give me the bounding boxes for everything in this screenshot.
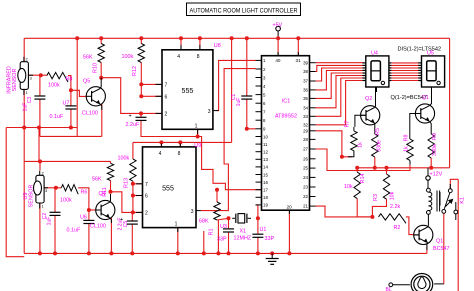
wire right rail [449,38,451,168]
wire U9 pin3 to IC pin2 [201,69,256,211]
lamp load [389,274,444,291]
svg-text:29: 29 [303,128,308,133]
svg-text:10: 10 [263,134,268,139]
timer U9 555 box [136,144,201,233]
node Q4 collector [109,190,113,194]
wire seg bus e [316,73,364,98]
capacitor U6 0.1uF [83,219,94,221]
svg-text:32: 32 [303,122,308,127]
svg-text:R2: R2 [394,225,401,231]
svg-text:R5: R5 [375,128,381,135]
svg-text:Q2: Q2 [365,96,372,102]
wire U9 pin4 stub [160,142,162,147]
svg-text:X1: X1 [240,229,247,235]
resistor R8 100k [47,72,68,82]
wire Q1 emitter to rail [426,246,428,253]
wire IC pin31 stub [297,38,299,55]
node sensor2 top [38,159,42,163]
wire seg bus b [316,65,364,71]
svg-text:BL: BL [386,287,392,291]
svg-text:4: 4 [177,54,180,60]
svg-text:555: 555 [162,185,174,192]
wire IC pin20 ground drop [288,210,290,253]
svg-text:R8: R8 [66,77,73,83]
wire seg bus d [316,71,364,90]
svg-text:0.1uF: 0.1uF [67,228,81,234]
svg-text:27: 27 [303,147,308,152]
svg-text:100k: 100k [48,83,60,89]
wire U8 pin4 stub [180,38,182,50]
capacitor C4 2.2uF polarized [136,116,147,118]
svg-text:Q5: Q5 [83,79,90,85]
svg-text:2: 2 [165,112,168,118]
wire U8 pin3 to IC pin1 [217,60,256,110]
svg-text:3: 3 [208,109,211,115]
wire R1 leg to rail [217,220,219,254]
svg-text:8: 8 [197,54,200,60]
wire crystal left cap U3 [228,218,230,229]
wire sensor2 feed [24,160,110,162]
wire C4 bottom to pin1 node [141,121,198,137]
wire C2 bottom [54,215,56,253]
wire C5 bottom [131,224,133,253]
resistor R1 68K [214,202,220,220]
wire C2 top [54,188,56,213]
svg-text:100k: 100k [60,198,72,204]
wire R12 bottom to pins 7/6 [140,63,142,97]
wire left rail [23,38,25,253]
svg-text:100k: 100k [122,54,134,60]
svg-text:SENSOR: SENSOR [28,185,34,208]
wire R11 top stub [110,161,112,163]
svg-text:R6: R6 [81,190,88,196]
svg-text:C3: C3 [27,97,33,104]
svg-text:20: 20 [287,205,293,210]
microcontroller IC1 AT89S52 [256,52,316,214]
svg-text:U4: U4 [371,51,378,57]
wire sensor2 mid to node [44,187,62,189]
wire +5V terminal to rail [277,31,279,39]
wire to U9 pin7 [133,183,143,185]
node R7 bottom [340,155,344,159]
svg-text:R11: R11 [102,187,108,197]
node Q5 collector [99,76,103,80]
node +12V terminal [426,176,430,180]
svg-text:U9: U9 [194,143,201,149]
wire sensor2 bottom [39,203,41,253]
wire C1 bottom to pin9 [247,99,256,129]
svg-text:R12: R12 [132,66,138,76]
node C1 pin9 [245,127,249,131]
crystal X1 12MHZ [232,214,251,223]
svg-text:Q1: Q1 [422,95,429,101]
svg-text:+5V: +5V [273,23,283,29]
capacitor C2 1uF [50,211,61,213]
wire U9 supply rail [133,141,232,143]
wire sensor1 mid to junction [28,74,46,76]
svg-text:22: 22 [303,194,308,199]
node Q4 base [87,208,91,212]
resistor R3 10k [383,174,389,199]
svg-text:11: 11 [263,142,268,147]
svg-text:18: 18 [263,195,268,200]
wire C4 top tap [140,113,142,117]
svg-text:12MHZ: 12MHZ [234,236,252,242]
wire to U8 pin7 [141,83,162,85]
node crystal left [227,216,231,220]
svg-text:10k: 10k [390,191,396,200]
wire R13 top [132,142,134,159]
wire base jog Q5 [71,90,87,96]
capacitor U7 0.1uF [65,105,76,107]
resistor R11 56K [107,163,113,180]
wire pin27 to R8 net [316,149,411,171]
wire to U9 pin6 [133,195,143,197]
node R2 left [370,215,374,219]
svg-text:21: 21 [303,204,308,209]
svg-text:38: 38 [303,69,308,74]
svg-text:15: 15 [263,172,268,177]
wire R9 bottom [430,158,432,168]
svg-text:K1: K1 [460,197,466,204]
svg-text:Q1: Q1 [436,239,443,245]
wire C3 bottom [39,99,41,136]
node sensor1 mid [39,73,43,77]
wire U7 top [70,90,72,106]
resistor R12 100k [138,44,144,63]
svg-text:330e: 330e [432,144,438,156]
node crystal right [256,216,260,220]
svg-text:16: 16 [263,180,268,185]
node y127 dots [22,126,26,130]
svg-text:C5: C5 [123,221,129,228]
display U4 LTS542 [363,56,392,92]
wire R12 top stub [140,38,142,43]
svg-text:R10: R10 [93,63,99,73]
capacitor U3 33P [223,228,234,230]
svg-text:56K: 56K [92,177,102,183]
svg-text:33P: 33P [265,236,275,242]
wire y127 to sensor2 feed riser [38,128,40,162]
svg-text:13: 13 [263,157,268,162]
wire R11 bottom node [110,181,112,192]
relay K1 coil and contact [427,180,458,225]
svg-text:U5: U5 [427,51,434,57]
wire collector node to U8 pin2 [101,78,162,114]
node R12 pins [139,82,143,86]
transistor Q1 BC547 display driver 2 [415,104,434,123]
wire relay common loop [450,179,458,188]
svg-text:1uF: 1uF [236,98,242,107]
wire U4-U5 bus [391,62,419,64]
ground [266,253,279,264]
svg-text:34: 34 [303,105,308,110]
wire R13 bottom chain [132,181,134,212]
wire relay NO contact down [455,214,457,220]
svg-text:0.1uF: 0.1uF [50,114,64,120]
node U9 supply [159,140,163,144]
svg-text:BC547: BC547 [433,246,449,252]
svg-text:33: 33 [303,114,308,119]
capacitor C1 1uF [241,95,252,97]
wire C1 top riser [246,38,248,96]
svg-text:CL100: CL100 [82,111,98,117]
wire U8 pin8 stub [199,38,201,50]
svg-text:28: 28 [303,137,308,142]
svg-text:DIS(1-2)=LTS542: DIS(1-2)=LTS542 [398,47,442,53]
svg-text:24: 24 [303,175,308,180]
svg-text:19: 19 [263,203,268,208]
wire +5V drop x77 [76,38,78,136]
wire 100k to U7 node [68,76,71,91]
resistor R2 2.2k [379,214,406,224]
wire relay NC to lamp [443,213,445,284]
resistor R5 330e [372,134,378,157]
infrared sensor 1 U2 [18,57,33,96]
wire +12V tap [427,168,429,176]
svg-text:10k: 10k [344,184,353,190]
wire C3/emitter y136 [40,135,102,137]
wire R6 to base node [78,188,89,210]
wire U9 pin8 stub [179,142,181,147]
wire base jog Q4 [89,209,96,211]
svg-text:33P: 33P [217,237,227,243]
resistor R14 10k [354,172,360,199]
node bottom rail dots [38,251,42,255]
wire seg bus a [316,62,364,64]
node C4 tap [139,111,143,115]
svg-text:6: 6 [145,194,148,200]
wire R1 bottom to crystal node [217,218,229,220]
resistor R10 56K [98,44,104,63]
wire emitter rail y168 [356,167,450,169]
wire pin21 to R2 node [316,206,373,217]
svg-text:U1: U1 [260,227,267,233]
display U5 LTS542 [418,56,444,92]
svg-text:3: 3 [191,209,194,215]
wire seg bus g [316,78,364,116]
svg-text:555: 555 [182,88,194,95]
wire +5V riser to U9 supply rail [231,38,233,142]
svg-text:R1: R1 [209,229,215,236]
svg-text:1uF: 1uF [47,217,53,226]
resistor R8 1k [407,139,413,160]
wire y127 horizontal [6,127,77,129]
svg-text:100k: 100k [118,156,130,162]
svg-text:330e: 330e [377,140,383,152]
svg-text:U7: U7 [63,101,70,107]
svg-text:2: 2 [145,211,148,217]
svg-text:U6: U6 [80,215,87,221]
svg-text:23: 23 [303,185,308,190]
wire U3 bottom [228,232,230,253]
wire U6 top [88,210,90,220]
wire C5 top stem [131,212,133,221]
svg-text:1uF: 1uF [23,103,29,112]
capacitor C5 2.2uF polarized [127,220,138,222]
svg-text:12: 12 [263,150,268,155]
infrared sensor 2 U9 [34,171,49,209]
wire Q4 emitter down [110,218,112,254]
svg-text:40: 40 [275,58,281,63]
wire seg bus f [316,76,364,108]
wire pin29 to R7 net [316,131,353,157]
wire ground staircase to IC pin17 [198,137,262,190]
svg-text:+12V: +12V [430,172,443,178]
svg-text:36: 36 [303,88,308,93]
wire U8 pin1 stub [197,129,199,136]
svg-text:SENSOR: SENSOR [12,69,18,92]
svg-text:R14: R14 [360,174,366,184]
wire Q5 emitter down [101,104,103,136]
wire bottom ground rail [24,252,427,254]
resistor R7 1k [351,131,357,151]
wire U1 bottom [257,237,259,253]
wire collector2 node to U9 pin2 [111,192,143,213]
svg-text:56K: 56K [83,55,93,61]
wire R14 bottom [356,199,358,217]
svg-text:R7: R7 [345,121,351,128]
wire R2 to Q1 base [406,217,414,235]
svg-text:IC1: IC1 [282,99,290,105]
wire top +5V rail [24,37,449,39]
resistor R6 100k [61,185,78,195]
wire R5 bottom [374,157,376,168]
wire x204 drop [203,231,205,253]
wire seg bus dp [316,81,364,125]
wire R10 bottom to collector node [100,63,102,78]
resistor R9 330e [428,134,434,158]
svg-text:35: 35 [303,96,308,101]
svg-text:31: 31 [296,58,302,63]
wire R14 top stub [356,168,358,172]
svg-text:U8: U8 [214,43,221,49]
node U8 pin1 [196,135,200,139]
wire outer left lower [6,128,24,257]
wire U1 top [257,218,259,234]
node emitter rail dots [355,166,359,170]
op-amp timer U8 555 box [156,45,219,134]
svg-text:7: 7 [165,83,168,89]
svg-text:7: 7 [145,182,148,188]
svg-text:4: 4 [159,151,162,157]
svg-text:AT89S52: AT89S52 [275,114,297,120]
svg-text:1: 1 [175,222,178,228]
svg-text:R13: R13 [124,178,130,188]
node +5V terminal [276,26,281,31]
svg-text:R3: R3 [373,194,379,201]
capacitor U1 33P [252,233,263,235]
node sensor2 mid [54,186,58,190]
node top rail dots [75,36,79,40]
title box [187,3,301,16]
wire sensor2 top drop [39,161,41,170]
transistor Q2 BC547 display driver [361,106,380,125]
svg-text:1k: 1k [404,146,410,152]
transistor Q4 CL100 [96,200,115,219]
node U7 [69,88,73,92]
svg-text:R9: R9 [432,133,438,140]
capacitor C3 0.1uF [34,95,45,97]
node R1 top [215,188,219,192]
svg-text:39: 39 [303,60,308,65]
svg-text:U3: U3 [220,224,227,230]
svg-text:14: 14 [263,165,268,170]
svg-text:68K: 68K [199,219,209,225]
svg-text:26: 26 [303,156,308,161]
svg-text:AUTOMATIC ROOM LIGHT CONTROLLE: AUTOMATIC ROOM LIGHT CONTROLLER [190,7,298,14]
svg-text:6: 6 [165,95,168,101]
svg-text:37: 37 [303,79,308,84]
wire R3 bottom jog [372,199,386,217]
svg-text:+: + [129,114,132,120]
wire U7 bottom [70,109,72,128]
wire R10 top stub [100,38,102,43]
svg-text:25: 25 [303,166,308,171]
node R13 pins [131,182,135,186]
svg-text:8: 8 [178,151,181,157]
transistor Q5 CL100 [86,87,105,106]
resistor R13 100k [130,159,136,181]
wire pin19 to crystal right [256,205,258,218]
svg-text:2.2uF: 2.2uF [126,122,140,128]
wire R3 top stub [386,168,388,174]
wire U9 pin1 down [177,228,179,254]
wire R1 top riser [216,190,218,202]
svg-text:CL100: CL100 [90,224,106,230]
wire seg bus c [316,68,364,81]
svg-text:17: 17 [263,188,268,193]
svg-text:2.2k: 2.2k [390,204,400,210]
wire to U8 pin6 [141,95,162,97]
wire R14 to R2 node [357,216,372,218]
svg-text:1: 1 [195,124,198,130]
wire C3 stem [39,75,41,96]
svg-text:R8: R8 [404,135,410,142]
transistor Q1 BC547 relay driver [414,225,433,244]
wire U6 bottom [88,224,90,254]
svg-text:1k: 1k [357,142,363,148]
